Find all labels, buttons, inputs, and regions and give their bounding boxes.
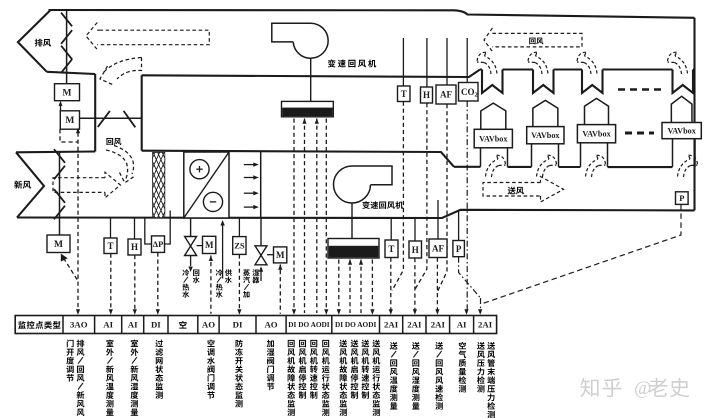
- sensor T: return air temperature probe in top duct: [402, 38, 404, 86]
- sensor ZS: freeze-protection switch: [238, 218, 240, 237]
- sensor CO2: return air CO2 probe: [466, 38, 468, 83]
- sensor P: duct-end static pressure sensor at far right: [676, 192, 689, 205]
- diffuser pentagon above VAVbox 1: [481, 103, 506, 129]
- svg-text:DI: DI: [151, 320, 161, 330]
- svg-text:H: H: [412, 245, 419, 255]
- svg-text:M: M: [65, 116, 74, 126]
- svg-text:VAVbox: VAVbox: [582, 130, 611, 139]
- duct: fresh-air intake hood (notched flag) at left: [16, 152, 44, 217]
- actuator M1: exhaust damper motor: [55, 84, 80, 101]
- label: fresh air 新风: [14, 181, 22, 189]
- sensor T: supply air temperature: [390, 218, 392, 240]
- svg-text:DI DO AODI: DI DO AODI: [288, 320, 330, 329]
- label: 变速回风机 supply fan: [362, 201, 370, 209]
- coil: heating/cooling coil section with diagonal: [184, 152, 229, 218]
- actuator M2: recirculation damper motor: [60, 111, 79, 129]
- duct: fresh-air duct upper wall: [16, 150, 95, 153]
- wire: supply AF to 2AI cell: [436, 258, 438, 314]
- flow arrow: return air dashed block arrow pointing left in room loop: [484, 28, 492, 52]
- label: 蒸汽/加湿器 steam/humidifier: [243, 269, 250, 276]
- wire: supply water arrow up into coil: [222, 224, 224, 279]
- watermark: 知乎 @老史: [580, 378, 689, 399]
- svg-text:DI DO AODI: DI DO AODI: [335, 320, 377, 329]
- svg-text:ZS: ZS: [234, 240, 245, 250]
- table cell label: 监控点类型: [18, 321, 26, 329]
- svg-text:AF: AF: [440, 90, 452, 100]
- wire: local P to 2AI cell (jogs right): [459, 257, 481, 298]
- svg-text:@: @: [634, 378, 652, 399]
- svg-text:VAVbox: VAVbox: [531, 131, 560, 140]
- filter: cross-hatched air filter: [107, 152, 238, 218]
- VAV terminal box 3: [577, 125, 615, 143]
- wire: return AF to 2AI cell (jog): [437, 104, 447, 292]
- duct: AHU upper-box top wall / top-duct lower wall: [142, 70, 480, 78]
- flow arrow: recirculation curved arrow from top duct down through opening: [104, 58, 142, 73]
- valve V2: humidifier steam valve: [260, 218, 262, 246]
- wire: supply fan pedestal to VFD box: [351, 203, 353, 239]
- duct: continuation dashes between room inlet tabs 3 and 4: [618, 88, 661, 91]
- sensor H: outdoor/fresh air humidity: [134, 218, 136, 240]
- wire: AO control line to steam valve motor M5: [279, 270, 281, 314]
- svg-text:M: M: [205, 240, 214, 250]
- wire: T to AI table cell: [110, 254, 112, 314]
- svg-text:AI: AI: [128, 320, 138, 330]
- wire: 3AO damper control line to table with up-arrow at M2: [77, 133, 79, 314]
- svg-text:AF: AF: [432, 244, 444, 254]
- svg-text:2AI: 2AI: [478, 320, 493, 330]
- flow arrows: curved hooks from supply duct up into VAV drops: [486, 155, 506, 177]
- wires: 4 control/monitor lines supply-fan VFD to DI DO AO DI table cells: [338, 260, 340, 314]
- VAV drop duct 2 into supply duct: [531, 144, 533, 167]
- wire: H to AI table cell: [134, 255, 136, 313]
- wire: supply T to 2AI cell: [390, 258, 392, 314]
- wire: dashed link M3 to 3AO control line with arrow into M3: [64, 258, 79, 281]
- sensor H: return air humidity probe: [426, 38, 428, 87]
- VAV drop duct 1 into supply duct: [480, 148, 482, 167]
- wire: CO2 to AI table cell: [466, 101, 468, 313]
- VAV drop duct 4 into supply duct: [672, 139, 674, 167]
- svg-text:VAVbox: VAVbox: [667, 126, 696, 135]
- valve V1: chilled/hot water return valve: [190, 218, 192, 237]
- damper: fresh-air damper shaft: [59, 152, 61, 235]
- label: supply air 送风: [508, 187, 516, 195]
- svg-text:T: T: [401, 89, 407, 99]
- VFD: supply fan variable-frequency drive box: [328, 239, 379, 259]
- svg-text:AI: AI: [103, 320, 113, 330]
- coil hot port: circle with +: [190, 160, 209, 179]
- wire: return fan pedestal to VFD box: [310, 58, 312, 101]
- VAV terminal box 4: [662, 123, 701, 139]
- continuation dashes between VAVbox 3 and 4: [625, 132, 654, 135]
- svg-text:2AI: 2AI: [431, 320, 446, 330]
- damper: fresh-air damper blades (4 alternating slashes): [54, 149, 65, 163]
- label: return air 回风 at recirculation opening: [106, 138, 113, 145]
- humidifier: spray section wall: [260, 152, 262, 218]
- humidifier: four spray arrows: [244, 164, 256, 166]
- svg-text:2AI: 2AI: [384, 320, 399, 330]
- svg-text:AI: AI: [457, 320, 467, 330]
- wire: AO control line to valve motor M4: [210, 262, 212, 314]
- duct: recirculation opening left wall: [94, 74, 96, 152]
- duct: exhaust-air intake hood (pentagon) at top-left: [18, 10, 51, 72]
- svg-text:P: P: [679, 193, 684, 203]
- table cell label: 空 (spare): [179, 321, 186, 329]
- svg-text:H: H: [131, 242, 138, 252]
- wire: supply H to 2AI cell: [414, 258, 416, 313]
- duct: right end wall of room loop: [693, 18, 695, 211]
- sensor dP: filter differential-pressure switch with sensing staple: [145, 218, 152, 244]
- svg-text:T: T: [107, 241, 113, 251]
- svg-text:3AO: 3AO: [70, 320, 88, 330]
- label: 冷/热水 回水 chilled/hot water return: [182, 269, 189, 276]
- svg-text:P: P: [456, 244, 462, 254]
- label: exhaust air 排风: [35, 39, 43, 47]
- label: 变速回风机 return fan: [328, 59, 336, 67]
- VAV terminal box 1: [474, 129, 512, 148]
- sensor H: supply air humidity: [414, 218, 416, 241]
- sensor P: supply air pressure at AHU outlet: [458, 210, 460, 241]
- svg-text:H: H: [423, 90, 430, 100]
- sensor AF: supply air flow: [437, 200, 439, 239]
- sensor AF: return air flow probe: [446, 38, 448, 85]
- damper: exhaust damper blades (4 alternating slashes): [61, 13, 72, 27]
- damper: exhaust damper shaft: [66, 10, 68, 84]
- svg-text:M: M: [276, 250, 285, 260]
- VFD: return fan variable-frequency drive box: [282, 101, 334, 116]
- svg-text:T: T: [388, 244, 394, 254]
- wire: dP to DI table cell: [157, 252, 159, 313]
- label: return air 回风 in room loop arrow: [529, 38, 535, 45]
- wire: remote P long diagonal to 2AI cell: [483, 204, 682, 303]
- wires: 4 control/monitor lines return-fan VFD to DI DO AO DI table cells: [293, 119, 295, 314]
- damper: recirculation damper line from M2 into AHU: [80, 117, 142, 119]
- VAV terminal box 2: [527, 127, 564, 144]
- diffuser pentagon above VAVbox 2: [533, 100, 558, 126]
- wire: return H to 2AI cell (jog): [415, 103, 427, 290]
- flow arrow: return air curved arrow into mixing box: [106, 150, 128, 179]
- duct: top return/exhaust duct upper wall: [49, 10, 695, 18]
- VAV drop duct 3 into supply duct: [580, 143, 582, 167]
- actuator M3: fresh-air damper motor: [47, 235, 70, 253]
- svg-text:2AI: 2AI: [407, 320, 422, 330]
- actuator M4: water valve motor: [203, 236, 216, 253]
- duct: AHU upper-box left wall: [141, 75, 143, 150]
- diffuser pentagon above VAVbox 4: [671, 96, 692, 122]
- duct: AHU upper-box bottom wall sloping into supply duct: [142, 151, 454, 167]
- duct: AHU bottom wall running right into supply duct: [17, 210, 695, 218]
- actuator M5: steam valve motor: [274, 247, 287, 263]
- wire: ZS status line to DI table cell: [238, 254, 240, 313]
- duct: supply duct upper wall segments between VAV drops: [454, 166, 481, 168]
- fan: variable-speed supply fan scroll: [334, 166, 392, 203]
- table: monitoring point type strip: [15, 316, 496, 334]
- svg-text:M: M: [54, 240, 63, 250]
- fan: variable-speed return fan scroll in top duct: [272, 23, 328, 58]
- label: 冷/热水 供水 chilled/hot water supply: [216, 269, 223, 276]
- svg-text:AO: AO: [264, 320, 277, 330]
- flow arrow: supply air dashed block arrow pointing right in room loop: [483, 183, 541, 197]
- table: vertical point descriptions under each cell: [67, 340, 74, 348]
- wire: return T to 2AI cell (jogs to join supply T line): [392, 102, 403, 291]
- svg-text:VAVbox: VAVbox: [479, 134, 508, 143]
- flow arrow: fresh air dashed block arrow pointing right: [53, 178, 105, 193]
- wire: dashed elbow M2 to 3AO control line: [60, 129, 78, 142]
- coil cold port: circle with -: [203, 192, 222, 211]
- svg-text:ΔP: ΔP: [153, 239, 164, 249]
- flow arrows: curved hooks from rooms up into return duct: [477, 52, 497, 74]
- duct: top duct lower wall, left of recirculation opening: [47, 72, 95, 74]
- duct: return collection duct notched lower wall with room inlet tabs: [480, 70, 693, 94]
- svg-text:DI: DI: [233, 320, 243, 330]
- damper: recirculation damper blades (2 mirrored slashes): [98, 111, 110, 127]
- diffuser pentagon above VAVbox 3: [585, 98, 609, 124]
- svg-text:M: M: [63, 88, 72, 98]
- svg-text:AO: AO: [202, 320, 215, 330]
- flow arrow: exhaust air dashed block arrow pointing left in top duct: [86, 23, 97, 50]
- wire: link arrow M2 to M1: [60, 103, 62, 111]
- sensor T: outdoor/fresh air temperature: [110, 218, 112, 239]
